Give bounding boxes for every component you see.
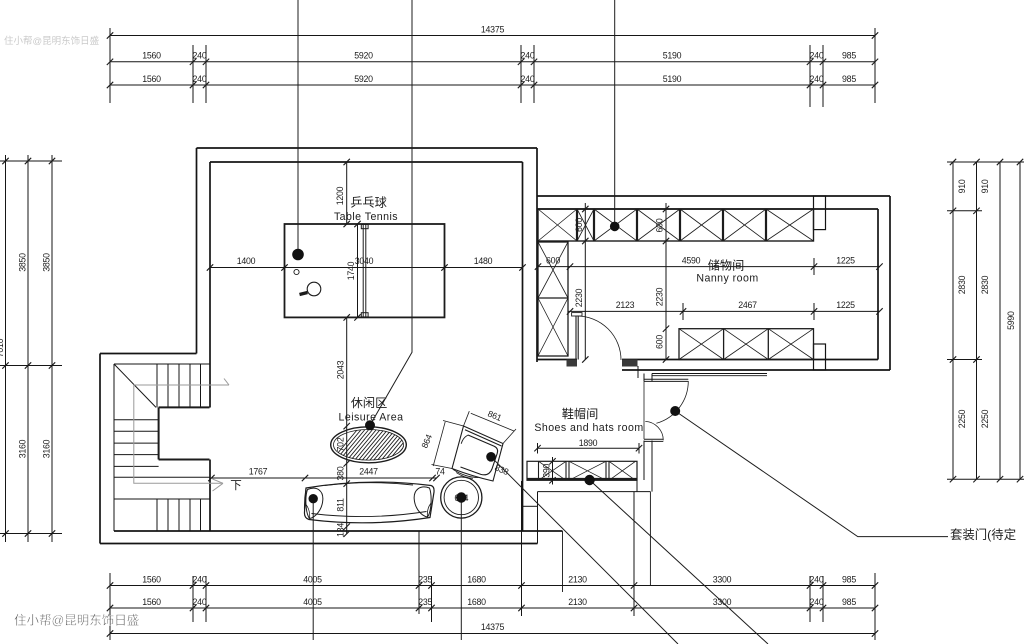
svg-text:Shoes and hats room: Shoes and hats room bbox=[534, 422, 643, 434]
wall left inner lower bbox=[209, 460, 211, 532]
wall left outer bbox=[196, 148, 198, 354]
svg-text:3300: 3300 bbox=[713, 574, 732, 584]
wall nanny top outer bbox=[537, 195, 890, 197]
svg-text:乒乓球: 乒乓球 bbox=[350, 196, 387, 210]
pier nanny right top bbox=[814, 196, 826, 230]
svg-text:4005: 4005 bbox=[303, 574, 322, 584]
wall stair inner left bbox=[113, 364, 115, 531]
dim 861 bbox=[464, 411, 517, 443]
wall nanny bottom inner left of door bbox=[537, 359, 577, 361]
svg-text:2123: 2123 bbox=[616, 300, 635, 310]
svg-text:5920: 5920 bbox=[354, 74, 373, 84]
shoes door top leaf bbox=[644, 379, 688, 441]
wall shoes south bbox=[538, 491, 651, 493]
leader leisure area bbox=[370, 0, 412, 425]
wall shoes east below door bbox=[643, 441, 645, 481]
wall step vertical bbox=[537, 492, 539, 544]
svg-text:1680: 1680 bbox=[467, 574, 486, 584]
svg-text:14375: 14375 bbox=[481, 622, 505, 632]
svg-text:1560: 1560 bbox=[142, 51, 161, 61]
dim row2 line bottom bbox=[110, 607, 875, 609]
svg-text:1740: 1740 bbox=[346, 261, 356, 280]
cabinet row top bbox=[538, 209, 814, 241]
svg-text:985: 985 bbox=[842, 574, 856, 584]
svg-text:1480: 1480 bbox=[474, 256, 493, 266]
svg-text:4005: 4005 bbox=[303, 597, 322, 607]
svg-text:住小帮@昆明东饰日盛: 住小帮@昆明东饰日盛 bbox=[14, 613, 139, 628]
svg-text:240: 240 bbox=[810, 597, 824, 607]
svg-text:下: 下 bbox=[230, 480, 242, 492]
svg-text:1560: 1560 bbox=[142, 597, 161, 607]
extension lines bottom bbox=[109, 573, 111, 640]
svg-text:985: 985 bbox=[842, 74, 856, 84]
sofa left armrest bbox=[306, 488, 323, 518]
dim 600/4590/1225 bbox=[538, 266, 880, 268]
wall top outer bbox=[197, 147, 538, 149]
dim vertical 600/2230 line1 bbox=[584, 203, 586, 360]
svg-text:2130: 2130 bbox=[568, 574, 587, 584]
svg-text:240: 240 bbox=[193, 74, 207, 84]
svg-text:5990: 5990 bbox=[1006, 311, 1016, 330]
wall stair top inner bbox=[114, 363, 210, 365]
dim labels row2 bottom bbox=[142, 597, 856, 607]
stair top flight treads bbox=[156, 364, 158, 407]
dim 2123/2467/1225 bbox=[568, 310, 879, 312]
nanny door leaf bbox=[572, 313, 621, 360]
svg-text:134: 134 bbox=[336, 523, 346, 537]
svg-text:3160: 3160 bbox=[42, 439, 52, 458]
svg-text:1680: 1680 bbox=[467, 597, 486, 607]
svg-text:套装门(待定: 套装门(待定 bbox=[950, 527, 1016, 542]
wall right inner bbox=[522, 162, 524, 531]
shoe cabinet row bbox=[527, 461, 637, 480]
svg-text:储物间: 储物间 bbox=[708, 258, 745, 273]
svg-text:5190: 5190 bbox=[663, 74, 682, 84]
stair landing lines bbox=[114, 476, 210, 478]
svg-text:74: 74 bbox=[435, 467, 445, 477]
svg-text:240: 240 bbox=[193, 574, 207, 584]
svg-text:985: 985 bbox=[842, 51, 856, 61]
wall stair top bbox=[100, 353, 197, 355]
dim ticks right bbox=[950, 159, 1023, 483]
stair well edges bbox=[159, 407, 210, 459]
svg-text:235: 235 bbox=[418, 597, 432, 607]
dim ticks top bbox=[107, 32, 878, 88]
wall nanny right outer bbox=[889, 196, 891, 370]
svg-text:600: 600 bbox=[546, 256, 560, 266]
svg-text:390: 390 bbox=[542, 463, 552, 477]
svg-text:5190: 5190 bbox=[663, 51, 682, 61]
svg-text:Nanny room: Nanny room bbox=[696, 273, 758, 285]
dim labels row1 top bbox=[142, 51, 856, 61]
svg-text:240: 240 bbox=[193, 597, 207, 607]
stair left flight treads bbox=[114, 419, 159, 421]
wall nanny bottom outer bbox=[622, 369, 890, 371]
svg-text:1400: 1400 bbox=[237, 256, 256, 266]
svg-text:1560: 1560 bbox=[142, 574, 161, 584]
dim 1400/3040/1480 bbox=[210, 267, 523, 269]
dim labels row2 top bbox=[142, 74, 856, 84]
wall block left of nanny door bbox=[567, 360, 578, 367]
svg-text:985: 985 bbox=[842, 597, 856, 607]
svg-text:住小帮@昆明东饰日盛: 住小帮@昆明东饰日盛 bbox=[4, 35, 100, 47]
svg-text:7010: 7010 bbox=[0, 338, 5, 357]
svg-text:2830: 2830 bbox=[980, 275, 990, 294]
leader round table bbox=[460, 498, 462, 641]
wall shoes east jamb top bbox=[643, 374, 645, 382]
wall step small bbox=[523, 505, 538, 507]
net bbox=[362, 224, 364, 317]
dim 1740 bbox=[357, 224, 359, 317]
svg-text:3850: 3850 bbox=[18, 253, 28, 272]
svg-text:2230: 2230 bbox=[655, 287, 665, 306]
dim row1 line top bbox=[110, 61, 875, 63]
wall shoes south face bbox=[652, 373, 767, 375]
svg-text:5920: 5920 bbox=[354, 51, 373, 61]
leader nanny cabinet bbox=[614, 0, 616, 226]
svg-text:240: 240 bbox=[810, 51, 824, 61]
round table bbox=[441, 477, 482, 518]
svg-text:2043: 2043 bbox=[336, 360, 346, 379]
wall nanny right inner bbox=[877, 209, 879, 360]
leader dots bbox=[292, 222, 680, 504]
dim labels row1 bottom bbox=[142, 574, 856, 584]
wall bottom inner bbox=[114, 530, 563, 532]
dim overall line 14375 top bbox=[110, 35, 875, 37]
svg-text:1767: 1767 bbox=[249, 467, 268, 477]
leader armchair bbox=[491, 457, 678, 644]
svg-text:910: 910 bbox=[980, 179, 990, 193]
wall shoes jog bbox=[637, 366, 639, 378]
leader door right bbox=[675, 411, 948, 537]
svg-text:Table Tennis: Table Tennis bbox=[334, 211, 398, 223]
svg-text:2447: 2447 bbox=[359, 467, 378, 477]
svg-text:240: 240 bbox=[810, 574, 824, 584]
dim 864 bbox=[432, 421, 464, 469]
svg-text:2830: 2830 bbox=[957, 275, 967, 294]
svg-text:休闲区: 休闲区 bbox=[351, 396, 388, 410]
svg-text:235: 235 bbox=[418, 574, 432, 584]
svg-text:240: 240 bbox=[521, 51, 535, 61]
paddle bbox=[307, 282, 321, 296]
stair walkline bbox=[134, 379, 229, 492]
dim 1200 bbox=[346, 162, 348, 224]
svg-text:3850: 3850 bbox=[42, 253, 52, 272]
wall nanny bottom inner bbox=[622, 359, 878, 361]
wall right outer bbox=[536, 148, 538, 362]
svg-text:2467: 2467 bbox=[738, 300, 757, 310]
dim labels left bbox=[0, 253, 52, 458]
extension lines top bbox=[109, 28, 111, 103]
wall stair outer left bbox=[99, 354, 101, 544]
svg-text:2130: 2130 bbox=[568, 597, 587, 607]
dim chain 2043/702/380/811/134 bbox=[346, 317, 348, 533]
wall top inner bbox=[210, 161, 523, 163]
svg-text:240: 240 bbox=[193, 51, 207, 61]
leader shoe cabinet bbox=[590, 480, 768, 644]
svg-text:1225: 1225 bbox=[836, 300, 855, 310]
shoes door bottom leaf bbox=[644, 438, 663, 440]
svg-text:1890: 1890 bbox=[579, 438, 598, 448]
ball bbox=[294, 269, 299, 274]
leader table tennis bbox=[297, 0, 299, 255]
wall nanny top inner bbox=[537, 208, 878, 210]
svg-text:600: 600 bbox=[655, 335, 665, 349]
svg-text:1560: 1560 bbox=[142, 74, 161, 84]
armchair bbox=[452, 426, 503, 481]
svg-text:1200: 1200 bbox=[335, 186, 345, 205]
wall block right of nanny door bbox=[622, 360, 638, 367]
dim overall line 14375 bottom bbox=[110, 633, 875, 635]
svg-text:240: 240 bbox=[810, 74, 824, 84]
stair bottom flight treads bbox=[156, 499, 158, 531]
svg-text:600: 600 bbox=[574, 218, 584, 232]
dim labels right bbox=[957, 179, 1016, 428]
wall left inner bbox=[209, 162, 211, 408]
pier nanny right bottom bbox=[814, 344, 826, 370]
svg-text:14375: 14375 bbox=[481, 25, 505, 35]
dim 1890 bbox=[538, 447, 640, 449]
leader sofa bbox=[312, 499, 314, 640]
dim row2 line top bbox=[110, 84, 875, 86]
svg-text:2250: 2250 bbox=[980, 409, 990, 428]
nanny door arc bbox=[577, 316, 621, 360]
svg-text:2250: 2250 bbox=[957, 409, 967, 428]
table tennis table bbox=[285, 224, 445, 317]
wall step down extension bbox=[562, 531, 564, 592]
sofa right armrest bbox=[414, 487, 431, 517]
svg-text:811: 811 bbox=[336, 498, 346, 512]
dim vertical 600/2230/600 line2 bbox=[665, 203, 667, 360]
svg-text:910: 910 bbox=[957, 179, 967, 193]
wall shoes cabinet end bbox=[636, 480, 638, 491]
sofa bbox=[304, 482, 434, 523]
svg-text:1225: 1225 bbox=[836, 256, 855, 266]
dim 390 bbox=[552, 457, 554, 485]
oval table bbox=[327, 427, 433, 466]
svg-text:240: 240 bbox=[521, 74, 535, 84]
svg-text:鞋帽间: 鞋帽间 bbox=[562, 406, 599, 421]
svg-text:4590: 4590 bbox=[682, 256, 701, 266]
dim 1767/2447/74 bbox=[211, 477, 437, 479]
cabinet column left bbox=[538, 242, 568, 356]
dim row1 line bottom bbox=[110, 585, 875, 587]
cabinet row bottom bbox=[679, 329, 814, 360]
stair diagonal bbox=[114, 364, 156, 407]
svg-text:600: 600 bbox=[655, 218, 665, 232]
dim ticks bottom bbox=[107, 582, 878, 636]
dim ticks left bbox=[2, 158, 55, 537]
svg-text:2230: 2230 bbox=[574, 288, 584, 307]
wall bottom outer bbox=[100, 543, 538, 545]
svg-text:3160: 3160 bbox=[18, 439, 28, 458]
